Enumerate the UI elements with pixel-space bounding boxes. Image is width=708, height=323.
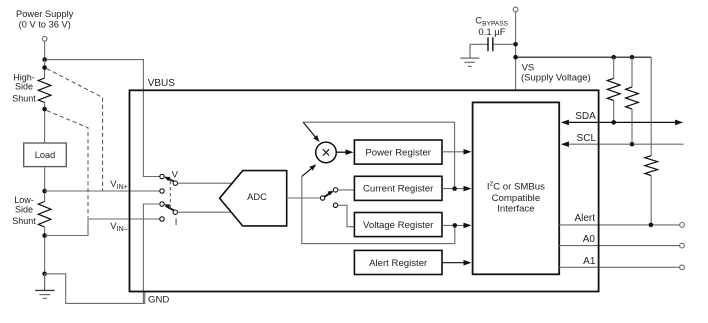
switch input V — [160, 174, 164, 193]
wire voltage reg out — [442, 224, 464, 226]
wire A1 — [559, 266, 679, 268]
node ground junction — [42, 272, 47, 277]
wire current reg out — [442, 188, 464, 190]
wire low-side bottom — [44, 227, 46, 274]
node SDA pullup junction — [611, 120, 616, 125]
svg-text:Shunt: Shunt — [12, 216, 36, 226]
svg-text:Interface: Interface — [497, 204, 534, 215]
svg-text:Alert Register: Alert Register — [369, 258, 428, 269]
dashed alt low-side connection — [47, 111, 88, 218]
svg-text:Power Register: Power Register — [365, 147, 431, 158]
resistor SDA pullup — [613, 57, 615, 78]
svg-text:Voltage Register: Voltage Register — [363, 220, 434, 231]
arrow multiplier to power register — [336, 151, 346, 153]
load box — [24, 143, 67, 167]
resistor low-side shunt — [38, 202, 51, 228]
multiplier X — [316, 142, 337, 163]
terminal A1 — [680, 265, 685, 270]
wire Alert — [559, 224, 679, 226]
dashed alt high-side connection — [47, 69, 103, 191]
power supply terminal — [42, 36, 47, 41]
ground symbol left — [39, 274, 50, 299]
wire gnd contact of I switch — [143, 204, 159, 303]
wire feedback voltage to multiplier — [302, 176, 455, 243]
svg-text:GND: GND — [148, 295, 169, 306]
svg-text:(Supply Voltage): (Supply Voltage) — [521, 73, 591, 84]
wire VIN+ — [45, 190, 160, 192]
svg-text:I2C or SMBus: I2C or SMBus — [487, 181, 545, 193]
node vin+ junction — [42, 189, 47, 194]
svg-text:Side: Side — [15, 82, 33, 92]
node cap junction — [513, 42, 518, 47]
svg-text:I: I — [175, 217, 178, 228]
wire to shunt — [44, 60, 46, 78]
wire mux to voltage register — [338, 205, 355, 226]
dashed switch gang — [169, 181, 171, 209]
wire mux to current register — [338, 189, 355, 191]
switch output mux — [324, 192, 332, 197]
terminal A0 — [680, 243, 685, 248]
wire alert reg out — [442, 262, 464, 264]
wire VIN- route — [45, 219, 160, 236]
wire supply vertical — [44, 41, 46, 59]
wire VBUS rail — [45, 60, 160, 177]
node current reg output junction — [452, 186, 457, 191]
box Power Register — [354, 140, 442, 164]
node supply junction — [42, 57, 47, 62]
svg-text:Power Supply: Power Supply — [16, 9, 74, 19]
wire A0 — [559, 245, 679, 247]
svg-text:A0: A0 — [583, 234, 596, 245]
svg-text:V: V — [172, 169, 179, 180]
wire power reg out — [442, 151, 464, 153]
wire load to low-side — [44, 167, 46, 202]
wire switch I to ADC — [178, 211, 233, 213]
svg-text:ADC: ADC — [247, 191, 267, 202]
switch input I — [160, 202, 164, 221]
resistor high-side shunt — [38, 78, 51, 103]
VS terminal — [513, 7, 518, 12]
wire shunt to load — [44, 103, 46, 144]
svg-text:Side: Side — [15, 204, 33, 214]
node SCL pullup junction — [630, 142, 635, 147]
capacitor CBYPASS — [493, 43, 514, 45]
IC outline — [130, 90, 599, 291]
node rail tap R-SCL — [630, 55, 635, 60]
svg-text:Alert: Alert — [574, 213, 595, 224]
wire SDA — [562, 121, 676, 123]
resistor alert pullup — [650, 78, 652, 156]
wire to gnd pin — [45, 274, 145, 304]
terminal Alert — [680, 223, 685, 228]
wire feedback current to multiplier — [303, 122, 454, 186]
svg-text:A1: A1 — [583, 256, 596, 267]
box Current Register — [354, 176, 442, 200]
wire switch V to ADC — [178, 182, 234, 184]
ground symbol cap — [460, 44, 479, 66]
box Voltage Register — [354, 213, 442, 237]
node voltage reg output junction — [453, 223, 458, 228]
wire VS rail right — [516, 56, 652, 58]
wire VS vertical — [515, 12, 517, 90]
node vin- junction — [42, 233, 47, 238]
node Alert pullup junction — [649, 223, 654, 228]
svg-text:0.1 µF: 0.1 µF — [478, 27, 505, 38]
resistor SCL pullup — [631, 57, 633, 87]
node shunt top — [42, 65, 47, 70]
svg-text:VBUS: VBUS — [148, 78, 176, 89]
node rail tap R-SDA — [611, 55, 616, 60]
op ADC pentagon — [220, 171, 287, 226]
svg-text:Shunt: Shunt — [12, 93, 36, 103]
svg-text:Current Register: Current Register — [363, 184, 434, 195]
wire SCL — [562, 143, 684, 145]
svg-text:Load: Load — [35, 150, 55, 160]
node shunt bottom — [42, 107, 47, 112]
box I2C interface — [473, 102, 560, 274]
wire ADC out — [287, 197, 321, 199]
svg-text:(0 V to 36 V): (0 V to 36 V) — [19, 20, 71, 30]
svg-text:Compatible: Compatible — [492, 193, 541, 204]
box Alert Register — [354, 250, 442, 274]
svg-text:SCL: SCL — [577, 133, 597, 144]
svg-text:SDA: SDA — [575, 111, 596, 122]
node rail junction — [513, 55, 518, 60]
